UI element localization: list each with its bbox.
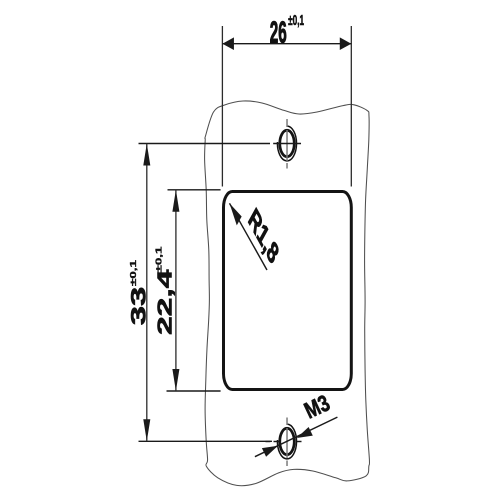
- svg-text:±0,1: ±0,1: [288, 11, 304, 28]
- svg-text:±0,1: ±0,1: [155, 246, 164, 273]
- svg-text:22,4: 22,4: [154, 269, 176, 335]
- svg-text:±0,1: ±0,1: [129, 259, 138, 286]
- svg-text:33: 33: [126, 287, 150, 326]
- svg-text:26: 26: [270, 16, 287, 49]
